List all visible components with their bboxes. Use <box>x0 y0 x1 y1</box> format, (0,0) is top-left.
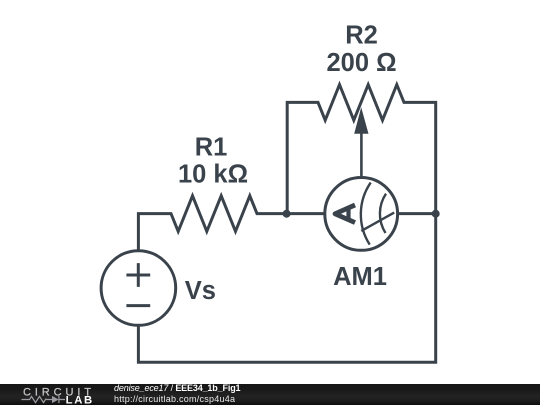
svg-text:LAB: LAB <box>66 395 94 405</box>
svg-text:10 kΩ: 10 kΩ <box>178 161 248 189</box>
svg-text:200 Ω: 200 Ω <box>326 49 396 77</box>
svg-text:R1: R1 <box>195 133 228 161</box>
svg-text:Vs: Vs <box>185 277 216 305</box>
svg-text:AM1: AM1 <box>333 263 387 291</box>
svg-text:R2: R2 <box>345 21 378 49</box>
